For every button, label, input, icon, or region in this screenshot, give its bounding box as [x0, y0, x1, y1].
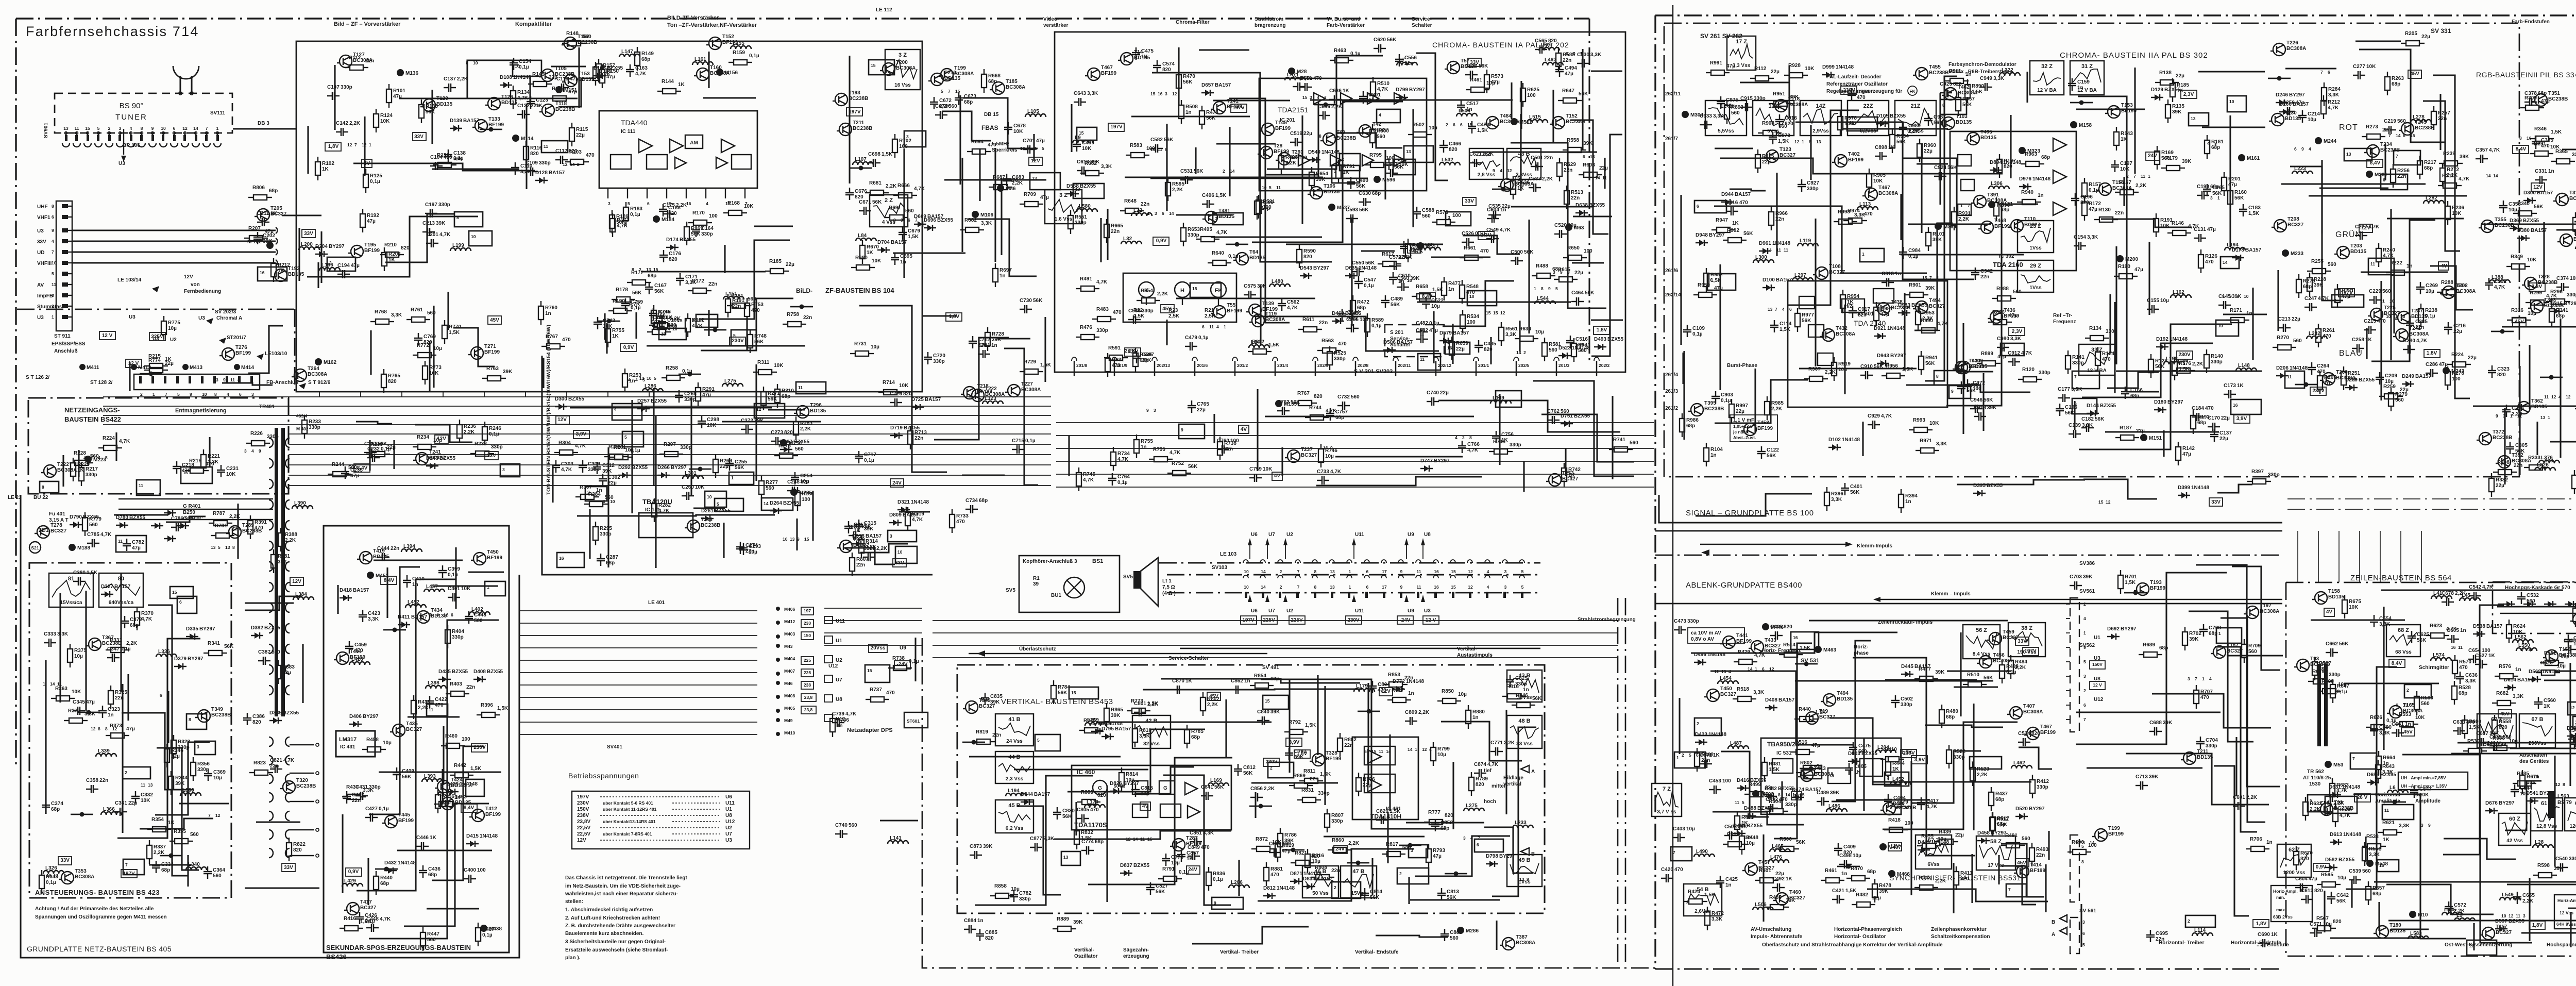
svg-text:L506: L506	[1755, 902, 1767, 908]
svg-text:4,7K: 4,7K	[439, 232, 451, 238]
resistor R1170	[688, 222, 693, 223]
resistor R4416	[340, 928, 345, 929]
svg-text:R928: R928	[1788, 63, 1801, 69]
resistor R2653	[1183, 223, 1184, 228]
transistor T156	[2099, 183, 2111, 195]
svg-text:D582: D582	[2325, 857, 2337, 863]
resistor R3341	[2551, 304, 2552, 309]
svg-text:0,9V: 0,9V	[2316, 864, 2327, 870]
svg-text:BA157: BA157	[1034, 792, 1050, 797]
measure point M369	[1935, 223, 1942, 230]
coil L388	[2489, 280, 2510, 283]
svg-text:1n: 1n	[999, 273, 1006, 279]
capacitor C656	[1318, 111, 1330, 120]
resistor R5570	[2454, 655, 2455, 660]
svg-text:R563: R563	[1321, 338, 1334, 344]
svg-text:R356: R356	[197, 761, 210, 767]
capacitor C566	[1346, 324, 1359, 332]
svg-text:L148: L148	[2238, 363, 2250, 369]
svg-text:R187: R187	[2120, 425, 2132, 431]
svg-text:10µ: 10µ	[2323, 922, 2332, 927]
svg-text:1n: 1n	[412, 582, 418, 588]
svg-text:T197: T197	[2260, 603, 2272, 609]
svg-text:16: 16	[1434, 569, 1439, 574]
capacitor C519	[1290, 138, 1302, 146]
svg-text:SV401: SV401	[607, 744, 622, 750]
svg-text:D635: D635	[1345, 265, 1358, 271]
voltage label	[1478, 231, 1494, 240]
wire	[768, 409, 805, 410]
wire	[1843, 128, 1948, 129]
svg-text:R307: R307	[580, 484, 592, 490]
svg-text:10K: 10K	[744, 204, 754, 209]
st128 pin	[226, 376, 228, 383]
svg-text:C498: C498	[1839, 853, 1852, 859]
wire	[693, 507, 725, 509]
svg-text:AV: AV	[37, 282, 44, 288]
svg-text:2,2K: 2,2K	[2246, 795, 2258, 800]
svg-text:C678: C678	[2442, 591, 2454, 596]
svg-text:7: 7	[1215, 216, 1217, 221]
wire	[2391, 928, 2429, 930]
resistor C1207	[244, 238, 249, 239]
svg-text:13: 13	[790, 537, 795, 542]
svg-text:33V: 33V	[284, 865, 293, 871]
wire	[1106, 786, 1108, 902]
svg-text:BD135: BD135	[2328, 594, 2345, 600]
svg-text:L574: L574	[2433, 653, 2445, 658]
svg-text:1n: 1n	[1523, 687, 1529, 693]
resistor R1311	[753, 372, 758, 373]
svg-text:U9: U9	[900, 645, 906, 651]
wire	[1715, 147, 1753, 149]
capacitor C965	[1957, 381, 1965, 394]
svg-text:R576: R576	[2499, 664, 2511, 670]
IC U495	[1885, 772, 1909, 786]
svg-text:C805: C805	[1077, 807, 1089, 813]
svg-text:16: 16	[1434, 584, 1439, 590]
svg-text:U3: U3	[198, 315, 205, 321]
svg-text:47µ: 47µ	[132, 545, 141, 551]
svg-text:R276: R276	[778, 443, 791, 449]
svg-text:FBAS: FBAS	[981, 124, 998, 131]
resistor R2625	[1522, 83, 1523, 88]
connector SV561 lower	[2070, 835, 2079, 902]
svg-text:11: 11	[139, 483, 143, 488]
svg-text:0,1µ: 0,1µ	[631, 305, 641, 311]
svg-text:1n: 1n	[991, 343, 997, 348]
svg-text:L562: L562	[2515, 634, 2527, 640]
transistor T652	[1552, 116, 1565, 129]
svg-text:D704: D704	[877, 240, 890, 245]
svg-text:T158: T158	[2328, 589, 2340, 594]
wire	[1754, 369, 1756, 433]
wire	[1286, 243, 1443, 245]
svg-text:4,7K: 4,7K	[1330, 469, 1342, 475]
svg-text:39K: 39K	[1786, 898, 1795, 904]
transistor T319	[2556, 193, 2568, 206]
wire	[1166, 124, 1167, 211]
measure point M114	[512, 135, 519, 142]
svg-text:3: 3	[1154, 408, 1156, 413]
wire	[369, 440, 370, 471]
resistor R3281	[2337, 284, 2338, 289]
svg-text:R787: R787	[213, 511, 225, 516]
svg-text:BC308A: BC308A	[2286, 46, 2306, 52]
svg-text:560: 560	[427, 310, 436, 316]
svg-text:1N4148: 1N4148	[1836, 64, 1854, 70]
capacitor C401	[1841, 483, 1849, 495]
svg-text:1: 1	[1035, 146, 1037, 151]
voltage label	[1594, 326, 1609, 335]
resistor R3263	[2387, 72, 2388, 77]
svg-text:R171: R171	[2230, 308, 2242, 313]
svg-text:11: 11	[118, 539, 123, 544]
capacitor C231	[217, 465, 225, 477]
svg-text:9: 9	[901, 218, 903, 223]
capacitor C361	[115, 808, 127, 816]
svg-text:22µ: 22µ	[549, 75, 557, 80]
svg-text:R658: R658	[1416, 284, 1428, 290]
resistor R2513	[1566, 186, 1567, 191]
svg-text:T227: T227	[1021, 381, 1033, 387]
transistor T828	[1312, 754, 1325, 766]
svg-text:D844: D844	[1021, 792, 1033, 797]
capacitor C294	[2502, 405, 2511, 417]
resistor R5595	[2317, 884, 2322, 885]
svg-text:15: 15	[1590, 154, 1595, 159]
capacitor C607	[2476, 738, 2488, 746]
svg-text:R191: R191	[2160, 218, 2173, 223]
capacitor C173	[2224, 390, 2236, 398]
svg-text:D826: D826	[1110, 781, 1122, 787]
st128 pin	[238, 376, 241, 383]
transistor T753	[1549, 474, 1561, 486]
wire	[85, 591, 87, 711]
wire	[2285, 68, 2336, 69]
resistor R1261	[609, 457, 615, 458]
svg-text:C369: C369	[213, 770, 226, 775]
svg-text:R957: R957	[1962, 96, 1975, 102]
wire	[2107, 372, 2159, 388]
svg-text:BF199: BF199	[1736, 639, 1752, 644]
svg-text:3,3K: 3,3K	[2379, 730, 2391, 736]
wire	[2529, 345, 2530, 409]
svg-text:4: 4	[251, 448, 254, 454]
svg-text:T353: T353	[75, 868, 87, 874]
wire	[1415, 836, 1510, 876]
svg-text:R971: R971	[1920, 438, 1932, 444]
svg-text:15: 15	[1486, 310, 1491, 315]
wire	[2134, 68, 2136, 174]
pin 3	[1502, 560, 1507, 578]
resistor R5585	[2513, 783, 2518, 784]
svg-text:L480: L480	[1272, 279, 1283, 285]
resistor R5558	[2494, 715, 2495, 720]
svg-text:22n: 22n	[992, 732, 1001, 738]
svg-text:820: 820	[1449, 147, 1458, 153]
wire	[2019, 747, 2052, 769]
right sheet bottom frame	[1655, 968, 2282, 970]
svg-text:BF199: BF199	[1227, 308, 1242, 314]
wire	[604, 313, 605, 340]
svg-text:9: 9	[223, 377, 226, 382]
voltage 225V	[1289, 616, 1305, 624]
svg-text:R598: R598	[2537, 863, 2550, 868]
wire	[1441, 722, 1522, 761]
capacitor C255	[725, 458, 734, 471]
voltage label	[846, 108, 862, 116]
resistor R4858	[990, 895, 995, 896]
svg-text:R411: R411	[1960, 871, 1973, 876]
voltage label	[121, 870, 137, 878]
svg-text:C662: C662	[2326, 641, 2338, 647]
svg-text:R889: R889	[1057, 916, 1069, 922]
capacitor C503	[1724, 831, 1737, 840]
svg-text:22n: 22n	[2415, 325, 2424, 330]
svg-text:470: 470	[2459, 665, 2468, 671]
capacitor C213	[422, 228, 435, 236]
svg-text:9: 9	[797, 537, 800, 542]
svg-text:2: 2	[639, 267, 641, 272]
svg-text:14: 14	[698, 317, 703, 323]
svg-text:11: 11	[1417, 584, 1421, 590]
diode D416	[1737, 788, 1749, 789]
tuner box BS90	[55, 93, 232, 133]
svg-text:470: 470	[2205, 406, 2214, 411]
transistor T895	[1691, 404, 1703, 416]
wire	[1774, 643, 1812, 839]
svg-text:T211: T211	[2197, 749, 2209, 755]
svg-text:39K: 39K	[1830, 790, 1840, 796]
svg-text:R728: R728	[992, 331, 1004, 337]
svg-text:BA157: BA157	[903, 512, 919, 518]
svg-text:24 Vss: 24 Vss	[1006, 739, 1023, 744]
svg-text:6: 6	[1366, 584, 1369, 590]
svg-text:22µ: 22µ	[387, 445, 396, 450]
svg-text:Vertikal- Treiber: Vertikal- Treiber	[1220, 949, 1259, 955]
svg-text:C334: C334	[161, 862, 174, 867]
svg-text:4: 4	[2309, 146, 2311, 152]
svg-text:201/8: 201/8	[1076, 363, 1088, 368]
diode D449	[1918, 849, 1930, 850]
resistor R3273	[2362, 136, 2367, 137]
resistor R1276	[774, 455, 779, 456]
resistor R1691	[885, 217, 890, 218]
svg-text:470: 470	[1674, 867, 1683, 873]
coil L275	[722, 383, 743, 387]
svg-text:1K: 1K	[1343, 170, 1350, 175]
capacitor C305	[2506, 442, 2514, 454]
waveform 68Z	[2386, 625, 2420, 657]
diode D826	[1110, 791, 1122, 792]
wire	[2451, 753, 2576, 754]
svg-text:BY297: BY297	[671, 465, 687, 471]
svg-text:1K: 1K	[2177, 88, 2184, 94]
diode D406	[349, 724, 362, 725]
svg-text:8,4V: 8,4V	[2516, 146, 2527, 152]
svg-text:6: 6	[1477, 842, 1479, 847]
wire	[2458, 743, 2576, 746]
svg-text:C496: C496	[1202, 193, 1214, 198]
coil L506	[1753, 907, 1773, 910]
resistor R1189	[612, 210, 613, 215]
transistor T313	[687, 520, 700, 532]
svg-text:100: 100	[899, 144, 908, 149]
resistor R4391	[250, 515, 251, 521]
wire	[2078, 96, 2159, 392]
capacitor C671	[859, 207, 871, 215]
svg-text:10K: 10K	[707, 423, 717, 428]
wire	[2386, 884, 2494, 914]
capacitor C757	[1326, 408, 1334, 421]
svg-text:22n: 22n	[2382, 127, 2391, 133]
transistor T434	[417, 611, 430, 623]
IC U350	[177, 596, 197, 613]
svg-text:C695: C695	[2156, 931, 2168, 937]
wire	[1776, 173, 1777, 256]
wire	[1496, 921, 1497, 950]
coil L452	[1890, 782, 1911, 785]
resistor R3349	[2506, 266, 2512, 267]
svg-text:1,5K: 1,5K	[1477, 128, 1488, 133]
svg-text:22n: 22n	[1775, 216, 1784, 222]
svg-text:330p: 330p	[1687, 619, 1699, 624]
svg-text:5: 5	[941, 89, 943, 94]
wire	[1096, 721, 1272, 723]
svg-text:1N4148: 1N4148	[1772, 241, 1790, 246]
svg-text:33 Vss: 33 Vss	[1516, 741, 1533, 747]
svg-text:4,7K: 4,7K	[100, 532, 112, 538]
svg-text:R956: R956	[1886, 363, 1898, 369]
svg-text:C730: C730	[1020, 298, 1032, 304]
svg-text:C255: C255	[735, 459, 747, 465]
capacitor C345	[73, 707, 85, 715]
voltage label	[1187, 866, 1200, 874]
resistor R5528	[2454, 681, 2455, 686]
coil L360	[180, 793, 201, 796]
capacitor C293	[739, 543, 748, 555]
svg-text:8: 8	[42, 484, 44, 490]
svg-text:1: 1	[2510, 413, 2513, 419]
diode D464	[1733, 833, 1745, 834]
diode D704	[877, 249, 890, 250]
resistor R2755	[1136, 434, 1137, 440]
capacitor C925	[1940, 89, 1952, 97]
diode D469	[1332, 321, 1344, 322]
resistor R3299	[2526, 302, 2531, 303]
svg-text:7: 7	[2521, 647, 2524, 653]
svg-text:C303: C303	[561, 461, 573, 467]
svg-text:22µ: 22µ	[165, 361, 174, 366]
IC U271	[2394, 151, 2420, 165]
svg-text:3,3K: 3,3K	[391, 312, 402, 318]
diode D458	[1977, 840, 1990, 841]
svg-text:7,5 Ω: 7,5 Ω	[1162, 584, 1175, 590]
svg-text:820: 820	[2004, 164, 2012, 170]
resistor R3169	[2157, 146, 2158, 151]
diode D921	[1874, 336, 1886, 337]
resistor R4458	[362, 749, 367, 750]
svg-text:D999: D999	[1822, 64, 1835, 70]
wire	[899, 511, 930, 512]
st128 pin	[151, 376, 154, 383]
svg-text:1: 1	[2148, 174, 2150, 179]
svg-text:R295: R295	[600, 526, 612, 531]
svg-text:D206: D206	[2276, 365, 2289, 371]
svg-text:1K: 1K	[1892, 766, 1900, 772]
svg-text:BC238B: BC238B	[555, 107, 575, 112]
svg-text:L84: L84	[858, 233, 867, 239]
resistor R3189	[2172, 370, 2177, 371]
svg-text:39K: 39K	[2163, 720, 2173, 726]
svg-text:R346: R346	[2534, 126, 2547, 132]
svg-text:10µ: 10µ	[2520, 791, 2529, 797]
svg-text:C673: C673	[964, 94, 976, 99]
resistor R3907	[1804, 378, 1809, 379]
svg-text:R905: R905	[1873, 173, 1886, 178]
diode D105	[1876, 123, 1889, 124]
capacitor C712	[969, 336, 977, 348]
svg-text:R629: R629	[1564, 162, 1576, 168]
svg-text:C975: C975	[1726, 97, 1738, 103]
voltage label	[325, 143, 341, 151]
svg-text:45V: 45V	[490, 317, 499, 323]
wire	[1033, 134, 1035, 161]
svg-text:22n: 22n	[1368, 98, 1377, 104]
svg-text:56K: 56K	[2458, 283, 2467, 289]
label ca10V box	[1688, 628, 1744, 643]
wire	[364, 116, 365, 176]
capacitor C496	[1202, 200, 1214, 208]
svg-text:12: 12	[215, 813, 221, 818]
measure point M446	[1762, 623, 1769, 630]
svg-text:BS426: BS426	[326, 953, 347, 961]
svg-text:10: 10	[52, 260, 57, 265]
svg-text:BA157: BA157	[891, 240, 907, 245]
svg-text:BY297: BY297	[2289, 92, 2305, 98]
wire	[1572, 262, 1604, 263]
diode D614	[2504, 687, 2516, 688]
wire	[1505, 710, 1507, 814]
svg-text:RGB-BAUSTEINII PIL BS 334: RGB-BAUSTEINII PIL BS 334	[2476, 71, 2576, 79]
svg-text:11: 11	[2517, 413, 2522, 419]
svg-text:470: 470	[562, 337, 571, 343]
transistor T843	[965, 701, 978, 713]
svg-text:LE 103: LE 103	[1220, 552, 1237, 557]
svg-text:R661: R661	[1464, 245, 1476, 251]
resistor R1102	[317, 157, 318, 162]
svg-text:D204: D204	[315, 244, 328, 249]
capacitor C804	[1368, 681, 1377, 693]
waveform 38Z	[2008, 623, 2045, 657]
svg-text:330p: 330p	[539, 160, 551, 166]
svg-text:R190: R190	[2118, 264, 2130, 270]
svg-text:C114: C114	[1780, 321, 1792, 327]
block chroma IIA BS302 border	[1664, 23, 2519, 477]
svg-text:16: 16	[2379, 863, 2384, 868]
wire	[2083, 479, 2157, 499]
L563 bar	[2548, 791, 2555, 818]
voltage label	[2529, 283, 2545, 291]
capacitor C698	[868, 159, 880, 167]
svg-text:BF199: BF199	[1969, 364, 1984, 370]
svg-text:R795: R795	[1369, 153, 1382, 158]
svg-text:C215: C215	[2364, 319, 2376, 324]
capacitor C180	[658, 316, 666, 329]
diode D289	[2345, 387, 2358, 388]
resistor R3191	[2156, 213, 2157, 219]
